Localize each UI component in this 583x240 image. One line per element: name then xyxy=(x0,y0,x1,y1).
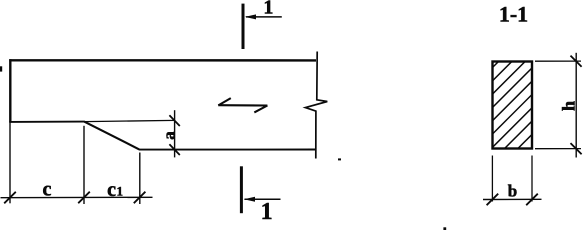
svg-text:b: b xyxy=(508,181,517,200)
beam top edge xyxy=(9,59,316,62)
tick at top of h xyxy=(571,56,582,67)
dimension line b xyxy=(483,198,542,200)
tick at left of b xyxy=(487,194,499,206)
beam dap diagonal edge xyxy=(84,121,139,149)
extension line below section right xyxy=(531,156,533,202)
tick at bottom of a xyxy=(169,144,179,155)
shear symbol (double half-arrow) xyxy=(218,98,267,112)
beam dap bottom edge xyxy=(9,121,84,123)
dimension line h xyxy=(575,53,577,158)
tick at right of b xyxy=(526,194,538,206)
scan speck bottom right xyxy=(443,227,446,230)
scan mark at left edge xyxy=(0,66,2,71)
svg-text:1: 1 xyxy=(263,0,273,19)
dimension line a xyxy=(174,110,176,157)
svg-text:1: 1 xyxy=(261,199,273,225)
extension line below diagonal end xyxy=(139,153,141,205)
section arrow (top) xyxy=(246,16,282,18)
section line 1 (bottom) xyxy=(240,166,243,213)
scan speck near break line xyxy=(338,158,341,160)
svg-text:1: 1 xyxy=(116,184,123,199)
extension line below beam left edge xyxy=(9,123,11,204)
beam left edge xyxy=(9,59,11,122)
tick at bottom of h xyxy=(571,143,582,154)
section line 1 (top) xyxy=(242,4,245,49)
extension line from section bottom right xyxy=(535,148,581,150)
svg-text:a: a xyxy=(159,131,178,140)
tick at x=10 xyxy=(4,192,16,204)
svg-text:c: c xyxy=(107,179,116,201)
tick at top of a xyxy=(169,115,179,126)
beam bottom edge xyxy=(139,149,316,151)
svg-text:1-1: 1-1 xyxy=(499,1,528,26)
section rectangle (hatched) xyxy=(493,62,533,149)
extension line from section top right xyxy=(535,60,581,62)
dimension line c / c1 xyxy=(1,196,153,198)
section arrow (bottom) xyxy=(245,198,281,200)
svg-text:c: c xyxy=(43,179,52,201)
tick at x=139.6 xyxy=(134,192,146,204)
extension line below section left xyxy=(491,156,493,202)
svg-text:h: h xyxy=(559,101,579,111)
break line (zigzag) at right end of beam xyxy=(305,52,327,159)
extension line below dap corner xyxy=(83,126,85,204)
tick at x=84 xyxy=(78,192,90,204)
extension line of dap bottom toward dimension a xyxy=(84,120,175,121)
